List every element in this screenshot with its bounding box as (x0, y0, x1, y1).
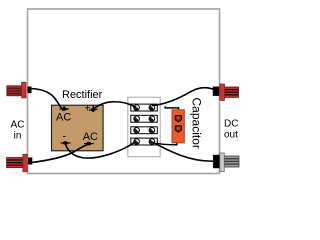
capacitor C1 clamp top lead (165, 106, 178, 111)
connector J4 (DC out, bottom-right, gray) (220, 153, 239, 172)
svg-text:+: + (85, 104, 91, 115)
wire W1: J1 to BR1 AC top-left (30, 89, 63, 111)
svg-text:in: in (14, 131, 22, 142)
chassis box (28, 9, 220, 174)
TB1 screws row1 (134, 105, 155, 111)
connector J3 (top-right, red) (220, 84, 239, 100)
terminal tab at J2 (28, 158, 32, 165)
connector J1 (AC in, top-left) (7, 82, 26, 98)
wire W3: BR1 minus to TB1 row4 left (65, 143, 134, 158)
wire W4: BR1 plus to TB1 row1 left (93, 102, 135, 110)
svg-text:AC: AC (11, 119, 25, 130)
capacitor C1 body (172, 110, 184, 143)
C1 screw top (175, 116, 181, 122)
wire W2: J2 to BR1 AC bottom-right (30, 144, 89, 163)
BR1 terminal AC (top-left) (60, 106, 70, 111)
svg-text:-: - (63, 131, 67, 143)
connector J2 (AC in, bottom-left) (7, 154, 28, 171)
capacitor C1 clamp bottom lead (157, 139, 177, 145)
svg-text:out: out (224, 130, 238, 141)
terminal tab at J3 (213, 87, 219, 96)
TB1 screws row4 (134, 139, 155, 145)
terminal strip TB1 (128, 97, 160, 156)
rectifier BR1 body (52, 105, 104, 151)
BR1 terminal - (bottom-left) (61, 141, 71, 145)
C1 screw bottom (175, 126, 181, 132)
terminal tab at J1 (28, 87, 32, 94)
wire W6: TB1 row4 right to J4 (153, 142, 216, 161)
terminal tab at J4 (213, 155, 220, 168)
TB1 screws row2 (134, 116, 155, 122)
svg-text:Rectifier: Rectifier (62, 89, 103, 101)
BR1 terminal AC (bottom-right) (84, 142, 94, 146)
svg-text:AC: AC (83, 131, 98, 143)
wire W5: J3 to TB1 row1 right (153, 88, 215, 106)
svg-text:DC: DC (224, 118, 238, 129)
svg-text:Capacitor: Capacitor (189, 98, 203, 149)
TB1 screws row3 (134, 127, 155, 133)
svg-text:AC: AC (56, 112, 71, 124)
BR1 terminal + (top-right) (89, 106, 98, 113)
